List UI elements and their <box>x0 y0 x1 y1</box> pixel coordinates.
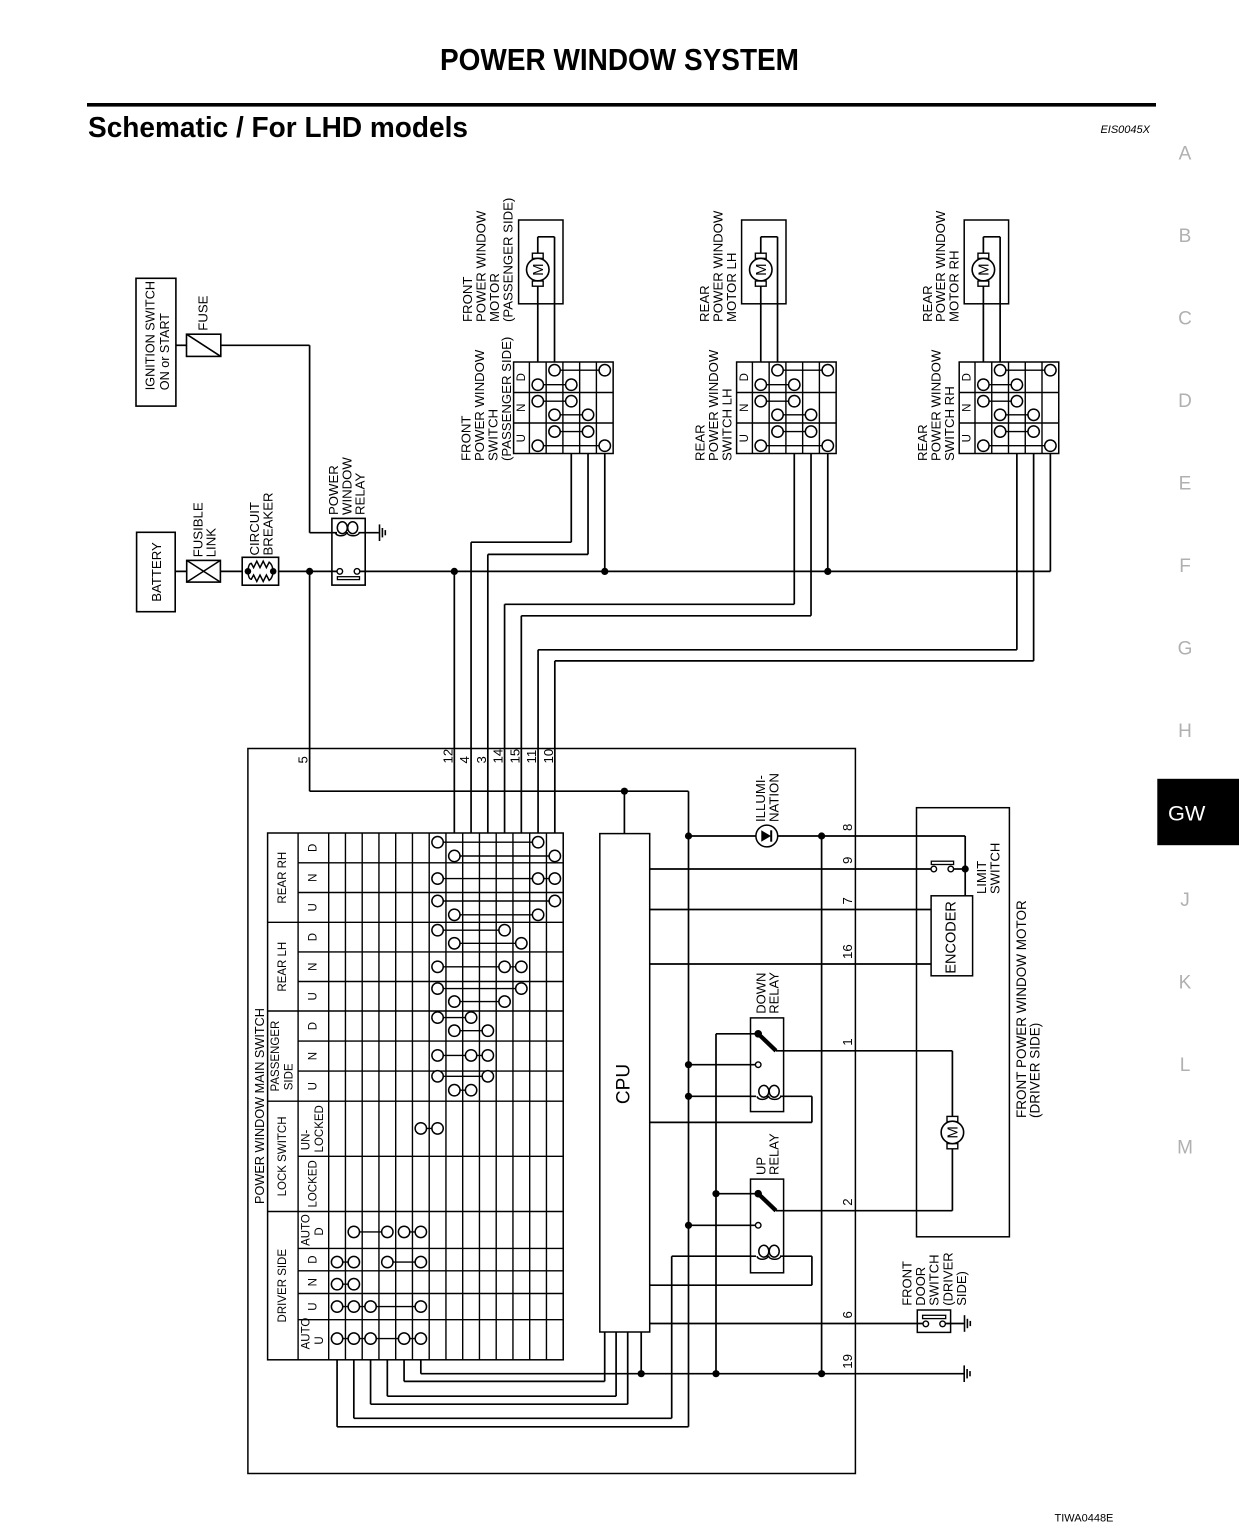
grid contacts lock switch <box>421 1127 438 1129</box>
svg-text:LOCKED: LOCKED <box>314 1105 326 1152</box>
window switch grid <box>737 362 837 454</box>
svg-text:POWER WINDOW MAIN SWITCH: POWER WINDOW MAIN SWITCH <box>253 1008 267 1204</box>
svg-text:N: N <box>307 874 319 882</box>
svg-text:(PASSENGER SIDE): (PASSENGER SIDE) <box>501 198 516 322</box>
wire cpu ground pin <box>640 1332 642 1374</box>
svg-text:Schematic / For LHD models: Schematic / For LHD models <box>88 112 468 144</box>
svg-text:RELAY: RELAY <box>767 972 782 1014</box>
svg-text:N: N <box>307 1052 319 1060</box>
driver motor <box>855 1050 952 1052</box>
svg-text:D: D <box>307 1255 319 1263</box>
wire 3 from front switch col4 <box>587 454 589 555</box>
wire 1 out <box>776 1050 855 1052</box>
wire ignition to fuse <box>176 344 187 346</box>
grid contacts rear LH <box>438 929 505 931</box>
svg-text:DRIVER SIDE: DRIVER SIDE <box>277 1249 289 1323</box>
svg-text:RELAY: RELAY <box>353 473 368 515</box>
motor box <box>964 220 1008 304</box>
svg-text:3: 3 <box>474 756 489 763</box>
illumination LED <box>689 835 756 837</box>
svg-text:SWITCH LH: SWITCH LH <box>719 388 734 461</box>
up relay box <box>751 1179 784 1273</box>
svg-text:LOCKED: LOCKED <box>307 1160 319 1207</box>
wire 2 out <box>776 1210 855 1212</box>
circuit breaker <box>242 557 278 585</box>
svg-text:D: D <box>516 373 528 381</box>
wire front switch col5 to bus <box>604 454 606 572</box>
fusible link <box>187 560 221 582</box>
svg-text:M: M <box>1177 1137 1193 1158</box>
svg-text:M: M <box>753 263 770 276</box>
svg-text:M: M <box>975 263 992 276</box>
svg-text:N: N <box>307 1278 319 1286</box>
down relay fixed contact <box>689 1064 759 1066</box>
switch contacts <box>555 369 605 371</box>
svg-text:D: D <box>307 933 319 941</box>
wire 4 from front switch col3 <box>570 454 572 543</box>
battery box <box>137 532 176 611</box>
wire 7 to encoder <box>855 909 931 911</box>
svg-text:D: D <box>1178 391 1192 412</box>
wire 15 from rear LH switch col4 <box>810 454 812 616</box>
svg-text:6: 6 <box>840 1311 855 1318</box>
svg-text:AUTO: AUTO <box>301 1318 313 1350</box>
svg-text:IGNITION SWITCH: IGNITION SWITCH <box>144 281 158 390</box>
up relay armature <box>716 1193 758 1195</box>
svg-text:G: G <box>1178 639 1193 660</box>
wire 14 from rear LH switch col3 <box>793 454 795 605</box>
junction bus to main switch line 5 <box>306 568 313 575</box>
svg-text:5: 5 <box>296 756 311 763</box>
svg-text:EIS0045X: EIS0045X <box>1100 124 1150 136</box>
main switch contact grid frame <box>268 833 564 1360</box>
switch contacts <box>778 369 828 371</box>
svg-text:(PASSENGER SIDE): (PASSENGER SIDE) <box>499 337 514 461</box>
svg-text:SIDE: SIDE <box>284 1063 296 1090</box>
svg-text:CPU: CPU <box>614 1064 635 1104</box>
svg-text:16: 16 <box>840 944 855 959</box>
svg-text:4: 4 <box>457 756 472 763</box>
svg-text:LOCK SWITCH: LOCK SWITCH <box>277 1116 289 1196</box>
ground symbol wire 19 <box>963 1365 965 1382</box>
svg-text:K: K <box>1179 972 1192 993</box>
illumination feed junction <box>685 832 692 839</box>
svg-text:FUSE: FUSE <box>196 295 211 330</box>
wire rear RH switch col5 to bus end <box>1049 454 1051 572</box>
svg-text:1: 1 <box>840 1038 855 1045</box>
up relay coil <box>672 1255 756 1257</box>
power window relay <box>332 518 365 585</box>
svg-text:N: N <box>739 404 751 412</box>
svg-text:M: M <box>944 1126 961 1139</box>
line 5 into main switch <box>309 571 311 791</box>
ignition switch box <box>136 278 176 406</box>
svg-text:2: 2 <box>840 1198 855 1205</box>
main feed bus <box>175 570 340 572</box>
svg-text:12: 12 <box>440 749 455 764</box>
svg-text:UN-: UN- <box>301 1130 313 1151</box>
motor symbol <box>537 237 539 253</box>
front power window motor driver side box <box>917 808 1010 1237</box>
svg-text:SIDE): SIDE) <box>954 1271 969 1306</box>
down relay armature <box>716 1033 758 1035</box>
svg-text:15: 15 <box>507 749 522 764</box>
limit switch <box>855 868 933 870</box>
svg-text:U: U <box>307 903 319 911</box>
svg-text:(DRIVER SIDE): (DRIVER SIDE) <box>1027 1023 1042 1118</box>
wire 16 from cpu <box>650 963 856 965</box>
svg-text:B: B <box>1179 226 1192 247</box>
relay coil ground <box>379 524 381 541</box>
svg-text:MOTOR LH: MOTOR LH <box>724 253 739 322</box>
svg-text:M: M <box>530 263 547 276</box>
wire grid col4 to cpu <box>386 1360 388 1396</box>
svg-text:D: D <box>307 844 319 852</box>
wire grid col1 to contact feed riser <box>336 1360 338 1427</box>
svg-text:ENCODER: ENCODER <box>944 901 960 974</box>
wire 11 from rear RH switch col3 <box>1016 454 1018 650</box>
svg-text:PASSENGER: PASSENGER <box>270 1021 282 1092</box>
down relay coil <box>689 1095 757 1097</box>
svg-text:U: U <box>307 1302 319 1310</box>
svg-text:U: U <box>961 434 973 442</box>
svg-text:D: D <box>314 1227 326 1235</box>
wire grid col2 to up relay coil <box>353 1360 355 1419</box>
wire 10 from rear RH switch col4 <box>1033 454 1035 661</box>
svg-text:REAR RH: REAR RH <box>277 852 289 904</box>
svg-text:D: D <box>961 373 973 381</box>
svg-text:8: 8 <box>840 824 855 831</box>
svg-text:N: N <box>307 963 319 971</box>
wire 7 from cpu <box>650 909 856 911</box>
svg-text:9: 9 <box>840 857 855 864</box>
svg-text:U: U <box>307 1082 319 1090</box>
svg-text:BATTERY: BATTERY <box>149 542 164 602</box>
svg-text:N: N <box>961 404 973 412</box>
svg-text:N: N <box>516 404 528 412</box>
window switch grid <box>959 362 1059 454</box>
svg-text:LINK: LINK <box>204 528 219 558</box>
svg-text:NATION: NATION <box>767 773 782 822</box>
svg-text:TIWA0448E: TIWA0448E <box>1055 1513 1114 1525</box>
grid contacts driver side <box>354 1231 388 1233</box>
wire 16 to encoder <box>855 963 931 965</box>
svg-text:19: 19 <box>840 1354 855 1369</box>
svg-text:D: D <box>307 1022 319 1030</box>
svg-text:GW: GW <box>1168 801 1206 826</box>
svg-text:SWITCH RH: SWITCH RH <box>942 386 957 461</box>
svg-text:AUTO: AUTO <box>301 1214 313 1246</box>
down relay box <box>751 1018 784 1112</box>
title rule <box>87 103 1156 107</box>
svg-text:U: U <box>314 1336 326 1344</box>
power window main switch box <box>248 749 856 1474</box>
svg-text:RELAY: RELAY <box>767 1133 782 1175</box>
margin index letters <box>1177 144 1193 1159</box>
motor symbol <box>982 237 984 253</box>
ground line 19 <box>420 1360 422 1374</box>
svg-text:C: C <box>1178 309 1192 330</box>
svg-text:H: H <box>1178 721 1192 742</box>
wire 9 from cpu <box>650 868 856 870</box>
svg-text:U: U <box>516 434 528 442</box>
grid contacts passenger side <box>438 1017 472 1019</box>
svg-text:L: L <box>1180 1055 1191 1076</box>
svg-text:MOTOR RH: MOTOR RH <box>947 250 962 322</box>
wire fuse to relay coil <box>221 344 310 346</box>
svg-text:11: 11 <box>524 750 539 764</box>
svg-text:F: F <box>1179 556 1191 577</box>
ground symbol door switch <box>964 1315 966 1332</box>
svg-text:POWER WINDOW SYSTEM: POWER WINDOW SYSTEM <box>440 43 799 77</box>
motor box <box>519 220 563 304</box>
wire 6 from cpu <box>650 1323 856 1325</box>
svg-text:A: A <box>1179 144 1192 165</box>
wire grid col3 to cpu <box>370 1360 372 1404</box>
front door switch <box>855 1323 923 1325</box>
svg-text:U: U <box>307 992 319 1000</box>
svg-text:E: E <box>1179 474 1192 495</box>
window switch grid <box>514 362 614 454</box>
up relay fixed contact <box>689 1224 759 1226</box>
switch contacts <box>1000 369 1050 371</box>
svg-text:7: 7 <box>840 897 855 904</box>
motor box <box>742 220 786 304</box>
svg-text:14: 14 <box>491 749 506 764</box>
wire grid col5 to cpu <box>403 1360 405 1382</box>
grid contacts rear RH <box>438 841 539 843</box>
relay common riser to ground <box>715 1034 717 1374</box>
svg-text:BREAKER: BREAKER <box>260 492 275 555</box>
svg-text:J: J <box>1180 890 1190 911</box>
fuse <box>187 334 221 356</box>
svg-text:D: D <box>739 373 751 381</box>
wire 12 riser from bus <box>451 568 458 575</box>
CPU box <box>600 834 650 1332</box>
wire rear LH switch col5 to bus <box>827 454 829 572</box>
illumination/contact feed riser <box>688 791 690 1427</box>
svg-text:10: 10 <box>541 749 556 764</box>
svg-text:SWITCH: SWITCH <box>987 843 1002 894</box>
svg-text:REAR LH: REAR LH <box>277 942 289 992</box>
illumination return riser <box>821 836 823 1374</box>
svg-text:U: U <box>739 434 751 442</box>
encoder box <box>931 896 973 976</box>
svg-text:ON or START: ON or START <box>158 313 172 391</box>
wire 8 to limit switch <box>855 835 965 837</box>
motor symbol <box>760 237 762 253</box>
GW tab <box>1157 779 1239 845</box>
